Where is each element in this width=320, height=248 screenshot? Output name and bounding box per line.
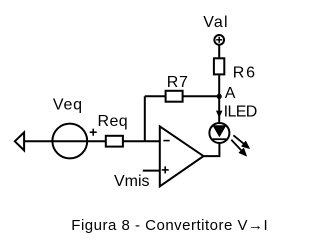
svg-text:Req: Req (98, 113, 129, 130)
svg-text:R7: R7 (167, 74, 189, 91)
svg-text:Veq: Veq (53, 97, 83, 114)
svg-text:A: A (225, 85, 236, 102)
svg-text:ILED: ILED (224, 103, 257, 120)
svg-text:Figura 8 - Convertitore V→I: Figura 8 - Convertitore V→I (71, 217, 268, 234)
svg-text:Vmis: Vmis (114, 173, 150, 190)
svg-text:Val: Val (203, 14, 229, 31)
svg-text:R6: R6 (233, 64, 257, 81)
